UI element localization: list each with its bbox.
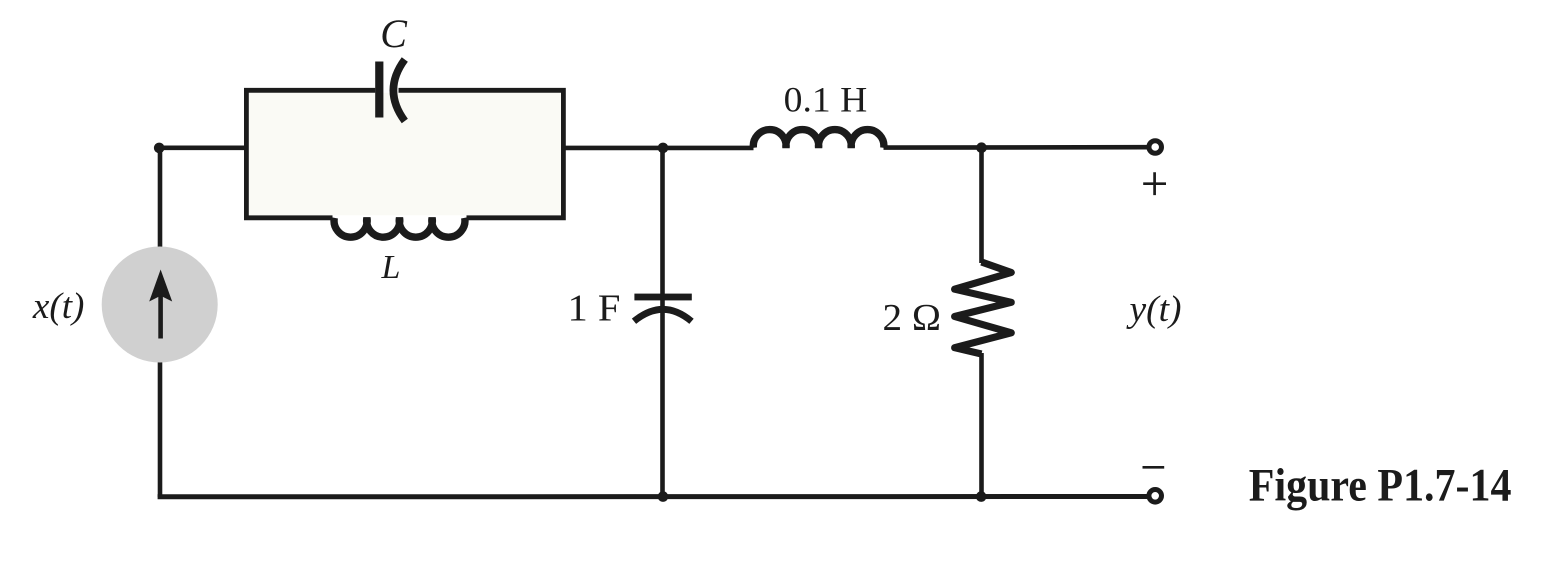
terminal − (open circle, bottom right) xyxy=(1149,490,1162,503)
node B junction dot (top middle) xyxy=(658,143,669,154)
LC tank interior fill xyxy=(249,93,561,216)
inductor 0.1 H (4 loops up) xyxy=(753,130,884,148)
wire: 1 F capacitor top lead xyxy=(660,147,665,294)
node C junction dot (top right) xyxy=(976,142,987,153)
wire: bottom return rail xyxy=(158,494,1148,499)
svg-text:L: L xyxy=(381,249,401,286)
node D junction dot (bottom middle) xyxy=(658,491,669,502)
svg-text:0.1 H: 0.1 H xyxy=(784,80,868,120)
inductor L (bottom of tank, 4 loops down) xyxy=(334,218,465,237)
wire: 0.1 H inductor to + terminal xyxy=(884,145,1148,150)
capacitor 1 F: flat plate xyxy=(634,294,691,301)
svg-text:2 Ω: 2 Ω xyxy=(883,297,942,339)
current source arrow shaft xyxy=(158,294,163,339)
wire: resistor top lead xyxy=(979,147,984,263)
resistor 2 Ω zigzag xyxy=(955,262,1012,354)
wire: LC tank right to 0.1 H inductor xyxy=(561,146,754,151)
label − xyxy=(1143,466,1165,469)
svg-text:x(t): x(t) xyxy=(32,286,85,327)
wire: left vertical branch (source branch) xyxy=(158,148,163,497)
capacitor C: curved plate xyxy=(393,60,404,122)
current source x(t): gray circle xyxy=(102,247,218,363)
wire: LC tank loop (rectangle with gaps for C and L) xyxy=(246,90,563,218)
wire: node A to LC tank left xyxy=(158,146,248,151)
label + xyxy=(1143,172,1166,195)
svg-text:y(t): y(t) xyxy=(1125,289,1181,330)
node E junction dot (bottom right) xyxy=(976,491,987,502)
capacitor 1 F: curved plate xyxy=(634,309,692,321)
terminal + (open circle, top right) xyxy=(1149,141,1162,154)
svg-text:C: C xyxy=(380,11,408,56)
current source arrowhead xyxy=(149,270,172,302)
svg-text:Figure P1.7-14: Figure P1.7-14 xyxy=(1249,459,1512,511)
svg-text:1 F: 1 F xyxy=(568,288,621,330)
capacitor C: flat plate xyxy=(375,62,383,118)
wire: 1 F capacitor bottom lead xyxy=(660,300,665,497)
wire: resistor bottom lead xyxy=(979,353,984,497)
node A junction dot (top left) xyxy=(154,143,165,154)
